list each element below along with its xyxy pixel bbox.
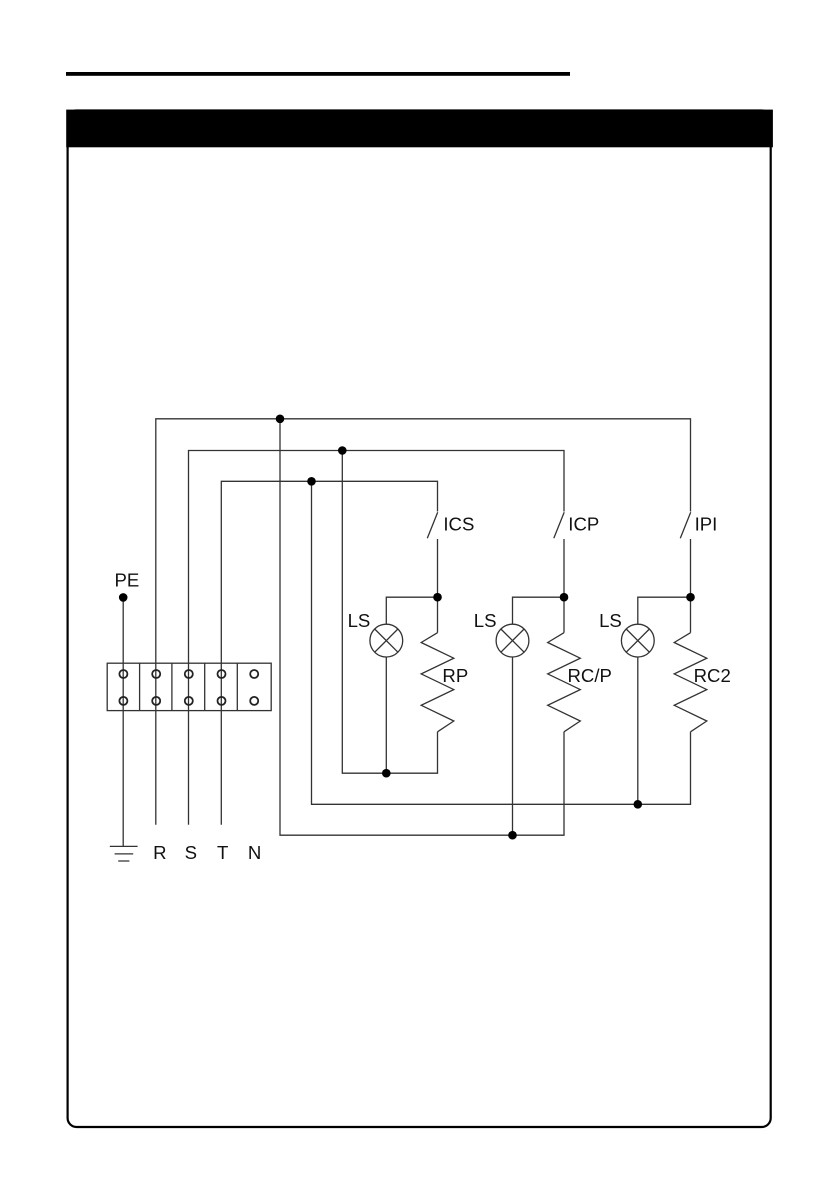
svg-text:T: T [217, 842, 228, 863]
svg-text:S: S [185, 842, 197, 863]
lamp LS1 [370, 624, 403, 657]
node IPI branch bottom [634, 800, 643, 809]
svg-text:PE: PE [115, 570, 140, 591]
wire from node on T bus down to bottom return of IPI branch [312, 481, 691, 804]
terminal block [107, 663, 271, 710]
ground [110, 846, 138, 861]
svg-text:RP: RP [442, 665, 468, 686]
svg-text:N: N [248, 842, 261, 863]
svg-text:LS: LS [599, 610, 622, 631]
wire from node on R bus down to bottom return of ICP branch [280, 419, 564, 835]
resistor RC/P [548, 633, 581, 732]
lamp LS2 [496, 624, 529, 657]
resistor RP [421, 633, 454, 732]
node ICP branch bottom [508, 831, 517, 840]
switch IPI lower lead [690, 539, 692, 633]
wire lamp LS1 top connection [386, 597, 437, 624]
wire from node on S bus down to bottom return of ICS branch [342, 451, 437, 774]
node on T bus [307, 477, 316, 486]
resistor RC2 [674, 633, 707, 732]
svg-text:LS: LS [474, 610, 497, 631]
wire R phase: top bus [156, 419, 691, 825]
wire S phase: middle bus [189, 451, 565, 825]
wire lamp LS1 bottom lead [385, 657, 387, 773]
switch ICP blade [554, 512, 564, 538]
svg-text:ICP: ICP [568, 513, 599, 534]
wire PE conductor [122, 597, 124, 846]
wire lamp LS3 top connection [638, 597, 691, 624]
svg-text:IPI: IPI [695, 513, 718, 534]
terminal circles [119, 670, 258, 705]
node ICS branch top [433, 593, 442, 602]
switch IPI blade [680, 512, 690, 538]
svg-text:R: R [153, 842, 166, 863]
node PE [119, 593, 128, 602]
lamp LS3 [621, 624, 654, 657]
svg-text:RC2: RC2 [694, 665, 731, 686]
switch ICS blade [427, 512, 437, 538]
svg-text:RC/P: RC/P [568, 665, 612, 686]
title underline [66, 72, 570, 76]
switch ICS lower lead [437, 539, 439, 633]
wire T phase: bottom bus [221, 481, 437, 825]
svg-text:ICS: ICS [443, 513, 474, 534]
node ICS branch bottom [382, 769, 391, 778]
wire lamp LS2 bottom lead [512, 657, 514, 835]
header bar [66, 110, 773, 148]
switch ICP lower lead [563, 539, 565, 633]
node ICP branch top [560, 593, 569, 602]
wire lamp LS3 bottom lead [637, 657, 639, 804]
svg-text:LS: LS [348, 610, 371, 631]
node on S bus [338, 446, 347, 455]
node on R bus [276, 415, 285, 424]
node IPI branch top [686, 593, 695, 602]
wire lamp LS2 top connection [513, 597, 565, 624]
